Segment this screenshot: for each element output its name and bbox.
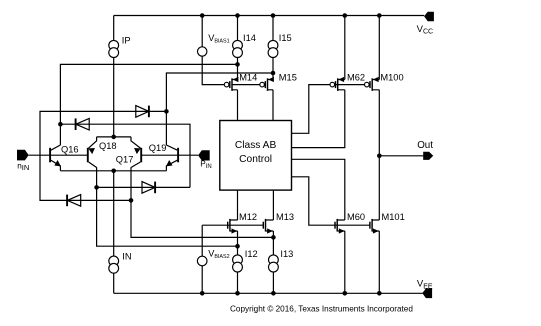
svg-text:M12: M12 xyxy=(239,212,257,222)
svg-text:Q19: Q19 xyxy=(149,143,167,153)
wire M15 source net to Q19 collector (y=73) xyxy=(166,73,273,145)
current source I15 xyxy=(268,40,278,57)
current source IN xyxy=(109,256,119,273)
op-amp M14 (PMOS) xyxy=(224,77,238,91)
wire M14 source net to Q16 collector (y=64.4) xyxy=(60,64,237,145)
transistor M101 (NMOS) xyxy=(370,219,379,234)
transistor M60 (NMOS) xyxy=(335,219,345,234)
current source IP xyxy=(109,40,119,57)
wire I12 column xyxy=(237,231,239,293)
transistor Q17 xyxy=(131,137,141,168)
transistor M12 (NMOS) xyxy=(228,219,238,234)
wire box stub1 to M62 M100 gates xyxy=(292,85,365,134)
wire emitter bus (y=170.8) xyxy=(60,170,166,172)
wire M12 drain to Class AB box xyxy=(237,190,239,220)
wire M60 drain to box (stub3) xyxy=(292,159,345,220)
input flag nIN xyxy=(17,150,29,161)
wire M14 drain to Class AB box xyxy=(237,90,239,121)
output flag Out xyxy=(423,152,433,160)
current source I14 xyxy=(233,40,243,57)
voltage source VBIAS2 xyxy=(197,256,207,266)
transistor Q19 xyxy=(166,145,178,171)
transistor Q16 xyxy=(50,145,61,171)
current source I13 xyxy=(269,255,279,272)
wire Q18 collector net down to I12/M12 source xyxy=(97,167,238,246)
wire I15 column xyxy=(272,16,274,80)
wire M13 drain to Class AB box xyxy=(272,190,274,220)
svg-text:IP: IP xyxy=(122,36,131,46)
svg-text:I12: I12 xyxy=(245,249,258,259)
svg-text:Q17: Q17 xyxy=(116,154,134,164)
svg-text:I13: I13 xyxy=(280,249,293,259)
wire mid-right diode line (y=187.4) xyxy=(97,186,190,188)
svg-text:I14: I14 xyxy=(243,33,256,43)
current source I12 xyxy=(233,255,243,272)
wire VBIAS2 column xyxy=(201,225,203,293)
diode D1 upper-left (points left, on y=124.2) xyxy=(76,118,90,130)
wire M62 source to rail xyxy=(344,16,346,80)
wire left outer loop (Q17 collector net) xyxy=(40,111,166,200)
power flag VCC xyxy=(424,12,434,22)
svg-text:Out: Out xyxy=(417,140,433,151)
wire M100 source to rail xyxy=(378,16,380,80)
wire M62 drain to box (stub2) xyxy=(292,90,345,148)
svg-text:Class AB: Class AB xyxy=(235,140,277,151)
wire I14 column xyxy=(237,16,239,80)
wire M101 source to rail xyxy=(378,231,380,293)
wire M100 M101 drain column with Out tap xyxy=(379,90,423,220)
svg-text:M15: M15 xyxy=(279,72,297,82)
wire nIN base line xyxy=(29,154,88,156)
svg-text:M14: M14 xyxy=(239,72,257,82)
wire pIN base line xyxy=(141,154,198,156)
svg-text:I15: I15 xyxy=(279,33,292,43)
svg-text:Copyright © 2016, Texas Instru: Copyright © 2016, Texas Instruments Inco… xyxy=(230,305,413,314)
svg-text:Q18: Q18 xyxy=(99,141,117,151)
transistor M62 (PMOS) xyxy=(330,77,345,91)
input flag pIN xyxy=(198,150,210,160)
svg-text:Control: Control xyxy=(239,154,272,165)
wire IP column: rail corner down to node A xyxy=(113,16,115,294)
diode D3 mid-right (points right, on y=187.4) xyxy=(142,182,155,194)
transistor Q18 xyxy=(88,137,97,168)
transistor M13 (NMOS) xyxy=(263,219,273,234)
diode D2 upper-right (points right, on y=111.4) xyxy=(136,106,149,118)
Class AB Control block xyxy=(220,121,292,191)
power flag VEE xyxy=(422,289,432,299)
wire bottom VEE rail xyxy=(114,292,423,294)
wire Q17 collector net down to I13/M13 source xyxy=(131,167,273,237)
voltage source VBIAS1 xyxy=(198,47,207,56)
diode D4 lower-left (points left, on y=200.4) xyxy=(67,195,81,207)
wire box stub4 to M60 M101 gates xyxy=(292,177,371,225)
svg-text:M100: M100 xyxy=(380,72,403,82)
transistor M100 (PMOS) xyxy=(365,77,380,91)
wire VCC top rail xyxy=(114,15,425,17)
svg-text:M60: M60 xyxy=(347,212,365,222)
wire I13 column xyxy=(272,231,274,293)
wire M12 M13 gate line xyxy=(202,224,263,226)
wire M60 source to rail xyxy=(344,231,346,293)
wire VBIAS1 column xyxy=(202,16,224,85)
node junction dots xyxy=(58,13,382,295)
svg-text:M13: M13 xyxy=(276,212,294,222)
wire node A horizontal xyxy=(97,136,131,138)
svg-text:M62: M62 xyxy=(347,72,365,82)
wire upper-left diode line (y=124.2) xyxy=(60,124,190,187)
transistor M15 (PMOS) xyxy=(232,77,274,91)
svg-text:M101: M101 xyxy=(382,212,405,222)
wire M15 drain to Class AB box xyxy=(272,90,274,121)
svg-text:Q16: Q16 xyxy=(61,144,79,154)
svg-text:IN: IN xyxy=(122,251,131,261)
